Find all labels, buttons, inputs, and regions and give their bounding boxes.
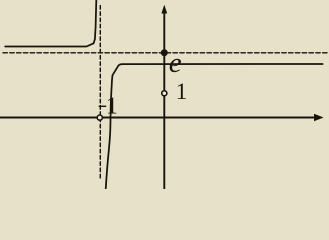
svg-text:1: 1 [176,79,188,104]
x-axis arrowhead [314,114,324,121]
label -1 minus sign [99,105,107,107]
filled point (0,e) [161,49,168,56]
curve left branch [5,0,96,47]
dashed horizontal asymptote y=e [3,52,329,54]
y-axis arrowhead [161,5,167,14]
y-axis [163,13,165,189]
svg-text:1: 1 [106,94,118,120]
open point (0,1) [162,91,167,96]
x-axis [0,117,315,119]
curve right branch [106,64,323,189]
svg-text:e: e [169,47,182,79]
dashed vertical asymptote x=-1 [99,6,101,181]
open point (-1,0) [97,115,102,120]
